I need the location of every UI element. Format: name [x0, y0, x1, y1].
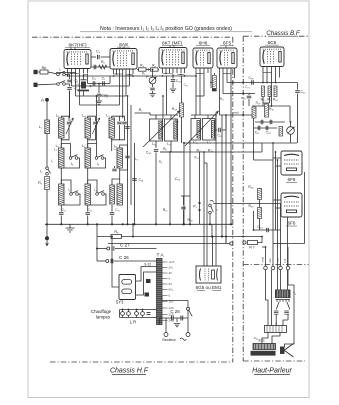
- capacitor C9: [150, 88, 155, 90]
- resistor R2 zigzag: [99, 65, 107, 69]
- connector block 2: [145, 293, 150, 297]
- resistor R1: [45, 177, 50, 190]
- tube V8 magic eye 6G5: [196, 266, 221, 283]
- bypass capacitor x87.7: [85, 213, 90, 215]
- svg-text:exc: exc: [268, 258, 272, 263]
- wire row1-row2 col3: [111, 138, 113, 151]
- coil L'7 in CV2: [212, 121, 215, 139]
- wire CV2 drop2: [207, 115, 209, 119]
- junction y76: [113, 75, 115, 77]
- wire from y96 to I4: [96, 96, 98, 144]
- bypass capacitor x112: [110, 213, 115, 215]
- wire CV2 to C12: [215, 129, 217, 131]
- pin rail 6A8: [114, 73, 134, 76]
- heater lamp x128.5: [127, 312, 131, 316]
- switch I4': [96, 191, 105, 196]
- wire x199.5 down: [199, 152, 201, 224]
- wire row3 to cap x61.3: [60, 205, 62, 212]
- svg-text:lampes: lampes: [96, 315, 111, 320]
- wire tube1 pin1 to y76: [67, 74, 69, 76]
- capacitor Cag: [97, 94, 102, 96]
- mains left leg: [165, 318, 167, 332]
- terminal y243.5: [230, 242, 233, 245]
- trimmer arrow row1 col2: [92, 118, 99, 134]
- capacitor C28a: [171, 316, 173, 321]
- wire 6C5 pin3 down: [271, 72, 273, 107]
- capacitor C2: [67, 88, 72, 90]
- wire gang1 drop2: [170, 115, 172, 119]
- wire heater to TA b: [152, 317, 157, 319]
- junction bus: [111, 223, 113, 225]
- wire to C26 switch: [97, 260, 106, 262]
- junction P2 top: [290, 121, 292, 123]
- extra capacitor row1 col3: [122, 122, 127, 124]
- wire to gang1: [162, 96, 164, 119]
- svg-text:I₁: I₁: [59, 68, 61, 72]
- rung into 6F6 lower b: [276, 207, 282, 209]
- svg-text:C₁₀: C₁₀: [176, 79, 182, 83]
- wire terminal2 to switch I1b: [38, 83, 57, 86]
- wire x253.5 down: [253, 115, 255, 128]
- wire x184 down: [183, 143, 185, 224]
- speaker cone: [285, 344, 294, 358]
- stub I5 top: [209, 203, 211, 206]
- rung into 6F6 upper a: [273, 157, 281, 159]
- wire 6H6 pin1 down: [195, 73, 197, 115]
- wire choke b down: [287, 315, 289, 321]
- wire bus down to C26: [96, 224, 98, 261]
- tuning gang CV1 box1: [150, 119, 163, 141]
- wire C28 mid to ground: [176, 318, 178, 322]
- capacitor row1 col3: [117, 122, 122, 124]
- speaker terminal x280.5: [279, 266, 283, 270]
- pin dots 6K7HF: [71, 73, 73, 75]
- svg-text:Cag: Cag: [101, 94, 107, 98]
- wire 6A8 pin to row1 col3: [122, 76, 124, 118]
- voice coil choke b: [284, 311, 289, 314]
- wire y93.5 to C28: [248, 94, 250, 96]
- potentiometer P: [149, 77, 156, 84]
- wire 6H6 pin3 down: [203, 73, 205, 96]
- pin rail 6C5: [263, 72, 272, 74]
- wire terminal feed2: [273, 243, 288, 245]
- antenna terminal 1: [34, 70, 38, 74]
- junction y236.5 b: [132, 236, 134, 238]
- junction y76: [172, 75, 174, 77]
- svg-text:5Y3: 5Y3: [116, 300, 124, 305]
- wire coil-cap top row1: [61, 116, 69, 121]
- svg-text:R₁₃: R₁₃: [172, 107, 178, 111]
- svg-text:6V₃: 6V₃: [169, 288, 175, 292]
- svg-text:C 26: C 26: [119, 255, 129, 260]
- wire to gang1 b: [166, 76, 168, 115]
- svg-text:C₂₈: C₂₈: [241, 96, 246, 100]
- wire x226 down: [225, 115, 227, 244]
- Haut-Parleur underline: [254, 374, 290, 376]
- junction P2b: [198, 209, 200, 211]
- svg-text:Haut-Parleur: Haut-Parleur: [252, 368, 292, 375]
- capacitor row1 col2: [93, 122, 98, 124]
- wire R7 to CV1: [135, 113, 151, 115]
- junction: [162, 95, 164, 97]
- wire C28 to y106: [248, 99, 250, 106]
- NFB line y203.5 to 6F6: [213, 203, 280, 205]
- wire 6F6 right stub: [301, 163, 303, 172]
- wire y73.5 stub: [56, 72, 76, 74]
- svg-text:T A: T A: [156, 253, 164, 259]
- wire x226 tail: [225, 237, 227, 244]
- pin rail 6H6: [196, 73, 204, 75]
- junction x127.5 bus: [126, 223, 128, 225]
- wire x216 to magic eye: [215, 115, 217, 266]
- ground symbol on bus: [66, 224, 75, 232]
- wire to Cag: [98, 84, 100, 94]
- wire x212.5 to magic eye: [212, 237, 214, 267]
- svg-text:S-12: S-12: [144, 263, 151, 267]
- wire 6F5 pin3 down: [226, 73, 228, 83]
- wire row3 col1 top: [61, 180, 71, 193]
- capacitor C28: [247, 96, 252, 98]
- svg-text:R₁₉: R₁₉: [188, 218, 194, 222]
- stub field: [275, 322, 277, 326]
- wire bus to earth terminal: [46, 224, 48, 236]
- svg-text:C₂₀: C₂₀: [245, 85, 251, 89]
- wire I1a to C1: [65, 75, 69, 80]
- junction x170 bus: [169, 223, 171, 225]
- wire C15 down join det: [297, 94, 299, 144]
- bundle wire a: [272, 143, 274, 240]
- junction y76: [67, 75, 69, 77]
- wire P2 down: [290, 134, 292, 143]
- tuning gang CV2 box1: [191, 119, 201, 141]
- svg-text:P: P: [146, 74, 149, 79]
- junction bus: [122, 223, 124, 225]
- wire C3 to 6A8: [101, 56, 110, 58]
- wire gang1 top: [150, 114, 178, 116]
- wire tube1 anode to C3: [91, 56, 96, 58]
- capacitor C14: [261, 120, 263, 125]
- svg-text:R₅: R₅: [114, 230, 119, 234]
- switch I4: [95, 155, 104, 160]
- Chassis B.F underline: [268, 35, 298, 37]
- svg-text:C₁₁: C₁₁: [175, 177, 181, 181]
- resistor R₂₁: [268, 86, 271, 97]
- wire to speaker terminal x265.5: [265, 247, 267, 266]
- junction: [132, 223, 134, 225]
- svg-text:Nota : Inverseurs I₁ I₂ I₃ I₄: Nota : Inverseurs I₁ I₂ I₃ I₄ I₅ positio…: [100, 26, 232, 32]
- wire bus link x133: [132, 224, 134, 236]
- resistor R28: [258, 189, 262, 200]
- tube label underlines: [65, 45, 279, 48]
- mains switch: [187, 307, 193, 316]
- wire row3 col3 link: [112, 179, 120, 185]
- svg-text:L R: L R: [130, 320, 136, 325]
- switch I5: [209, 200, 214, 213]
- earth terminal dot: [45, 236, 49, 240]
- mains terminal right: [186, 333, 190, 337]
- svg-text:C₂₄: C₂₄: [257, 225, 263, 229]
- capacitor C6: [94, 65, 96, 70]
- svg-text:R₈: R₈: [163, 147, 167, 151]
- svg-text:4V: 4V: [169, 282, 173, 286]
- wire y230: [254, 229, 282, 231]
- wire y106 down right: [289, 106, 291, 122]
- wire row1-row2 col2: [87, 138, 89, 148]
- chassis HF right border: [232, 37, 234, 362]
- capacitor heater: [147, 313, 151, 315]
- svg-text:exc: exc: [276, 258, 280, 263]
- wire 6F5 pin2 down: [222, 73, 224, 94]
- chassis HF bottom border: [50, 361, 233, 363]
- top cap tick 6K7HF: [71, 47, 75, 49]
- wire extra cap top: [119, 116, 124, 121]
- junction y230: [253, 229, 255, 231]
- junction bus: [60, 223, 62, 225]
- wire L1 to I2: [46, 134, 48, 168]
- junction R4-R6: [148, 69, 150, 71]
- wire 6A8 pin6 down: [125, 74, 127, 96]
- wire term to transformer: [280, 270, 282, 290]
- resistor R6: [151, 68, 159, 71]
- svg-text:R₂₉: R₂₉: [248, 204, 254, 208]
- capacitor C19: [252, 80, 254, 85]
- capacitor C4 bottom bar: [78, 90, 90, 92]
- capacitor C4 top plate: [81, 79, 87, 81]
- capacitor C14b: [112, 169, 117, 171]
- wire C26 to TA: [114, 260, 157, 262]
- wire tube1 pin2 down: [71, 74, 73, 86]
- haut-parleur bottom border: [243, 360, 305, 362]
- wire C16 to bus: [155, 153, 157, 225]
- capacitor C24: [267, 228, 269, 233]
- wire cap to bus x87.7: [87, 216, 89, 225]
- wire to speaker terminal x273: [272, 247, 274, 266]
- coil L1: [45, 120, 50, 134]
- svg-text:L₃: L₃: [56, 114, 60, 118]
- junction: [211, 236, 213, 238]
- svg-text:R₁₉: R₁₉: [269, 107, 274, 111]
- wire screen supply right: [304, 172, 306, 244]
- junction bus x190: [189, 223, 191, 225]
- wire y122: [255, 121, 285, 123]
- capacitor C26: [111, 259, 113, 264]
- output transformer core: [276, 300, 291, 303]
- wire R6R8 row: [160, 151, 184, 153]
- tube V1 6K7 HF: [64, 50, 91, 69]
- wire tube1 pin4 down: [79, 74, 81, 105]
- wire row1-row2 col1: [60, 138, 62, 148]
- wire TA to 5Y3 anode1: [136, 267, 157, 282]
- wire cap to bus x112: [111, 216, 113, 225]
- wire C10 down: [172, 83, 174, 89]
- heater lamp x142.5: [141, 312, 145, 316]
- wire row3 col2 top: [88, 180, 97, 193]
- svg-text:C₂₅: C₂₅: [254, 336, 259, 340]
- capacitor C18: [132, 179, 137, 181]
- wire right down to C15: [297, 83, 299, 90]
- wire 6K7MF pin to C10: [172, 74, 174, 79]
- wire row2 col3 cap top: [120, 145, 128, 155]
- wire row2 col3 cap bottom: [120, 159, 128, 170]
- trimmer arrow row1 col1: [66, 118, 73, 134]
- junction P2a: [198, 202, 200, 204]
- wire x207 to magic eye: [206, 163, 208, 266]
- tube V2 6A8: [110, 49, 137, 70]
- capacitor C15: [295, 91, 300, 93]
- svg-text:C₁₆: C₁₆: [146, 151, 152, 155]
- rung into 6F6 lower a: [273, 199, 281, 201]
- heater bus left end: [119, 310, 121, 318]
- coil row3 col3: [117, 184, 122, 205]
- junction dashdot y82.5: [242, 82, 244, 84]
- resistor R15: [212, 76, 216, 89]
- wire coil-cap bottom row1: [61, 125, 69, 140]
- svg-text:4V: 4V: [169, 271, 173, 275]
- svg-text:A: A: [41, 98, 44, 103]
- wire TA to switch: [162, 300, 188, 302]
- wire 6A8 pin down: [122, 74, 124, 76]
- junction x97: [96, 223, 98, 225]
- junction det: [183, 142, 185, 144]
- junction y106: [271, 105, 273, 107]
- wire HT to voice coil region: [285, 316, 295, 347]
- rung into 6F6 upper b: [276, 165, 282, 167]
- wire 6F5 pin5 stub: [234, 73, 236, 78]
- switch I1a: [57, 71, 66, 76]
- svg-text:R₂₂: R₂₂: [273, 98, 279, 102]
- wire CV1 down2: [170, 141, 172, 152]
- junction y96: [96, 95, 98, 97]
- svg-text:mod: mod: [261, 257, 265, 263]
- wire R20 tail: [262, 97, 264, 107]
- wire 6H6 pin5 down: [210, 73, 212, 88]
- svg-text:C₁₅: C₁₅: [301, 90, 307, 94]
- wire 6F5 pin1 down: [219, 73, 221, 115]
- junction bus x231: [230, 223, 232, 225]
- wire to 6F6 bundle: [254, 159, 274, 161]
- wire term mod down: [266, 270, 269, 326]
- resistor Rp: [40, 70, 48, 74]
- wire coil-cap bottom row1: [88, 125, 96, 140]
- wire y106: [252, 105, 290, 107]
- capacitor C5: [93, 81, 95, 86]
- junction y115: [225, 114, 227, 116]
- wire to speaker terminal x288: [287, 247, 289, 266]
- excitation coil: [253, 344, 276, 350]
- wire 6C5 pin2 down: [266, 72, 268, 83]
- coil row2 col1: [59, 148, 64, 168]
- wire stub y163: [204, 162, 207, 164]
- wire A down: [46, 102, 48, 121]
- wire I3' out: [61, 194, 80, 205]
- wire CV2 box1 down: [189, 140, 191, 224]
- pin dots 6A8: [116, 73, 118, 75]
- svg-text:6F6: 6F6: [288, 177, 296, 182]
- bus y236.5: [97, 236, 243, 238]
- switch contact C27: [107, 247, 110, 250]
- junction bundle a: [272, 142, 274, 144]
- capacitor row1 col1: [67, 122, 72, 124]
- wire R tails join: [263, 102, 270, 104]
- voice coil: [281, 347, 285, 354]
- switch I3': [70, 191, 79, 196]
- tuning arrow CV2: [185, 111, 218, 146]
- svg-text:C₄₁: C₄₁: [184, 83, 189, 87]
- pin rail 6K7MF: [163, 74, 185, 75]
- wire sec b: [287, 302, 290, 310]
- wire row2-row3 col2: [87, 168, 89, 184]
- wire y82.5 BF right: [256, 82, 298, 84]
- junction: [266, 82, 268, 84]
- tube V9 6F6 upper: [281, 151, 302, 175]
- Chassis H.F underline: [112, 374, 146, 376]
- svg-text:C₃: C₃: [96, 50, 101, 54]
- svg-text:C₂₂: C₂₂: [266, 131, 272, 135]
- svg-text:Chassis H.F: Chassis H.F: [110, 368, 149, 375]
- svg-text:R₄: R₄: [140, 64, 144, 68]
- wire x222 down: [221, 115, 223, 237]
- coil L7 in CV1: [174, 121, 177, 139]
- tuning gang CV1 box2: [165, 119, 178, 141]
- wire I4' out: [88, 194, 106, 205]
- svg-text:C₁₄: C₁₄: [88, 208, 93, 212]
- chassis BF left border: [242, 36, 244, 361]
- pin rail 6K7HF: [68, 74, 88, 75]
- wire CV1 down1: [155, 141, 157, 148]
- switch I2: [46, 167, 51, 175]
- wire C12 up: [222, 115, 226, 130]
- wire bus y86: [72, 85, 130, 87]
- junction y76: [195, 75, 197, 77]
- magnet dark bar: [251, 351, 276, 356]
- junction bundle c: [277, 159, 279, 161]
- wire 6H6 link y96: [196, 95, 204, 97]
- chassis BF top border left: [243, 35, 266, 37]
- wire C4 down: [83, 91, 85, 96]
- junction x127.5 top: [127, 95, 129, 97]
- wire CV2 drop1: [194, 115, 196, 119]
- wire x253.5 down3: [253, 211, 255, 230]
- tube V7 rectifier 5Y3: [119, 275, 136, 300]
- wire terminal feed: [262, 246, 266, 248]
- svg-text:C 27: C 27: [120, 243, 130, 248]
- bundle wire b: [275, 152, 277, 230]
- ground bus y224.3: [45, 223, 233, 225]
- underline 6F6 upper: [286, 182, 297, 184]
- svg-text:C₁₅: C₁₅: [115, 208, 120, 212]
- tube V3 6K7 MF: [159, 48, 187, 69]
- resistor R19: [265, 104, 269, 117]
- svg-text:C₁₃: C₁₃: [114, 147, 119, 151]
- svg-text:2V₅: 2V₅: [169, 266, 175, 270]
- wire mod line y115: [220, 114, 254, 116]
- junction bundle b: [275, 151, 277, 153]
- junction P feed: [152, 69, 154, 71]
- wire 6A8 to 6K7MF: [137, 69, 159, 71]
- svg-text:C₄: C₄: [75, 82, 80, 86]
- capacitor C12: [219, 128, 221, 133]
- top cap tick 6A8: [120, 46, 124, 48]
- wire 6A8 pin5 down: [119, 74, 121, 105]
- wire heater to TA a: [152, 309, 157, 311]
- svg-text:C₁₇: C₁₇: [62, 208, 66, 212]
- wire y128: [254, 127, 278, 129]
- wire 6C5 pin1 down: [262, 72, 264, 83]
- bus y243.5: [108, 243, 231, 245]
- wire y82.5 to BF: [227, 82, 256, 84]
- junction x216: [215, 114, 217, 116]
- wire 6F5 region down: [214, 73, 216, 75]
